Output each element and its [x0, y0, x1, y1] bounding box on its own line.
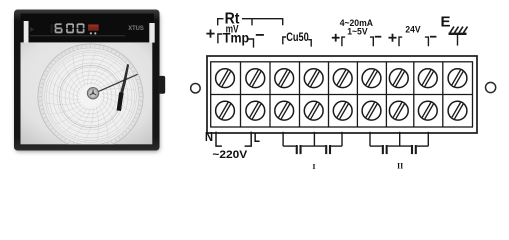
svg-text:24V: 24V: [405, 24, 420, 34]
svg-text:~220V: ~220V: [212, 149, 248, 161]
svg-text:XTUS: XTUS: [128, 26, 144, 32]
svg-text:Cu50: Cu50: [286, 30, 309, 44]
svg-text:I: I: [313, 162, 316, 171]
svg-text:1~5V: 1~5V: [347, 26, 367, 36]
svg-text:E: E: [441, 15, 451, 31]
svg-text:L: L: [254, 130, 260, 145]
svg-text:N: N: [205, 129, 213, 144]
svg-text:Tmp: Tmp: [223, 30, 249, 46]
svg-text:II: II: [397, 162, 403, 171]
